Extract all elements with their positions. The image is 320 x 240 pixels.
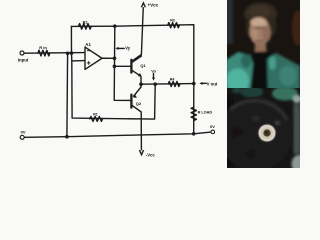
svg-text:R2: R2 (83, 21, 88, 25)
svg-text:Q1: Q1 (140, 63, 146, 68)
svg-text:-Vcc: -Vcc (146, 152, 156, 157)
svg-text:R in: R in (39, 45, 47, 50)
svg-text:V out: V out (207, 82, 218, 87)
svg-text:0V: 0V (210, 124, 215, 129)
svg-text:A1: A1 (85, 42, 91, 47)
svg-text:Vx: Vx (151, 69, 157, 74)
svg-text:R1: R1 (93, 113, 98, 117)
svg-text:R3: R3 (170, 19, 175, 23)
svg-text:R4: R4 (170, 77, 175, 81)
svg-text:Q2: Q2 (136, 101, 142, 106)
svg-text:Input: Input (18, 57, 29, 62)
svg-text:R LOAD: R LOAD (198, 111, 213, 115)
svg-text:+Vcc: +Vcc (148, 2, 159, 7)
svg-text:Vy: Vy (125, 46, 131, 51)
svg-text:0V: 0V (21, 129, 26, 134)
